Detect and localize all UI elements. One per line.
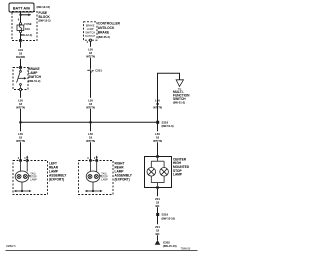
terminal at switch box bottom (19, 88, 21, 90)
ground bus arrows (right lamp) (85, 190, 103, 192)
svg-text:G302: G302 (163, 240, 170, 244)
node: middle bus junction (89, 121, 92, 124)
pin 4 (left lamp) (18, 157, 20, 160)
wire L50 18 WT/TN: S318 to center high mounted stop lamp (153, 122, 162, 156)
wire: L50 bus (horizontal) (21, 121, 158, 123)
wire: bus arrow to other fuses (21, 14, 32, 17)
svg-text:(8W-51-6): (8W-51-6) (162, 124, 174, 128)
svg-text:CONTROLLER: CONTROLLER (98, 22, 121, 26)
pin 4 (right lamp) (87, 157, 89, 160)
battery feed box BATT A06 (9, 3, 34, 12)
svg-text:OUTPUT: OUTPUT (85, 35, 96, 38)
svg-text:WT/TN: WT/TN (16, 139, 25, 143)
svg-text:(8W-12-4): (8W-12-4) (20, 33, 32, 37)
svg-text:BLOCK: BLOCK (39, 15, 51, 19)
ground G302 (155, 240, 177, 248)
footer rule (6, 249, 198, 251)
svg-text:WT/TN: WT/TN (153, 105, 162, 109)
svg-text:WT/TN: WT/TN (153, 139, 162, 143)
terminals at left lamp box top (19, 159, 28, 161)
CHMSL bulb left (147, 168, 156, 177)
controller antilock brake (dashed box) (84, 22, 98, 40)
svg-text:WT/TN: WT/TN (86, 139, 95, 143)
wire L50 18 WT/TN: middle bus to right rear lamp (86, 122, 95, 160)
wire: BATT A06 to fuse block (20, 12, 22, 15)
ground bus arrows (left lamp) (14, 190, 32, 192)
terminal at CHMSL bottom (156, 186, 158, 188)
CHMSL internal wiring (parallel bulbs) (151, 158, 164, 187)
footer page id J988W-5 (6, 245, 16, 248)
wire Z01 18 BK: S319 to ground (155, 216, 160, 240)
svg-text:ANTILOCK: ANTILOCK (98, 26, 115, 30)
svg-text:(8W-12-2): (8W-12-2) (39, 19, 51, 23)
brake lamp switch (dashed box) (13, 67, 42, 90)
tail feed stub with up arrow (right lamp) (94, 155, 98, 160)
controller name label (98, 22, 121, 39)
wire Z01 18 BK: CHMSL to S319 (155, 189, 160, 213)
terminals at right lamp box top (89, 159, 97, 161)
svg-text:SWITCH: SWITCH (173, 97, 186, 101)
off-page connector triangle to multi-function switch (173, 80, 190, 105)
node: left lamp ground junction (21, 190, 23, 192)
svg-text:10A: 10A (25, 27, 30, 31)
pin 2 (controller) (87, 41, 89, 44)
svg-text:BK: BK (155, 232, 159, 236)
fuse 10A (17, 22, 32, 37)
wire L50 18 WT/TN: C201 to bus (86, 70, 95, 122)
svg-text:(8W-15-10): (8W-15-10) (163, 244, 177, 248)
svg-text:J988W-5: J988W-5 (6, 245, 16, 248)
pin 8 (fuse cavity) (18, 18, 20, 21)
wire: left bulb to ground bus (21, 182, 23, 191)
svg-text:(EXPORT): (EXPORT) (115, 177, 130, 181)
svg-text:S318: S318 (162, 121, 169, 125)
terminal at controller box bottom (89, 39, 91, 41)
footer sheet id TJ8W-50 (181, 248, 191, 251)
wire: right bulb to ground bus (92, 182, 94, 191)
label TAIL/STOP LAMP (right) (99, 172, 108, 181)
wires into left tail/stop bulb (21, 162, 28, 172)
node: fused B+ bus junction (19, 14, 21, 16)
svg-text:DG/RD: DG/RD (16, 55, 25, 59)
svg-text:(EXPORT): (EXPORT) (49, 177, 64, 181)
svg-text:FUSE: FUSE (24, 22, 31, 26)
svg-text:(8W-51-3): (8W-51-3) (173, 101, 185, 105)
svg-text:WT/TN: WT/TN (86, 105, 95, 109)
svg-text:LAMP: LAMP (101, 178, 108, 181)
svg-text:LAMP: LAMP (30, 178, 37, 181)
svg-text:WT/TN: WT/TN (86, 54, 95, 58)
fuse block (dashed) (12, 11, 51, 41)
wire A10 18 DG/RD: fuse block to brake lamp switch (16, 42, 25, 68)
svg-text:(8W-51-2): (8W-51-2) (28, 79, 40, 83)
reference (8W-10-15) (37, 5, 51, 9)
svg-text:S319: S319 (162, 213, 169, 217)
wire: fuse to fuse block edge (20, 33, 22, 41)
left rear lamp assembly (dashed box) (13, 161, 67, 195)
svg-text:SWITCH: SWITCH (28, 75, 41, 79)
wire L50 18 WT/TN: left bus to left rear lamp (16, 122, 25, 160)
splice S318 (156, 121, 173, 129)
svg-text:BK: BK (155, 204, 159, 208)
splice S319 (156, 213, 175, 221)
wire: riser to multi-function switch (153, 73, 179, 122)
tail feed stub with up arrow (left lamp) (24, 155, 28, 160)
wire: bus to fuse (20, 15, 22, 23)
svg-text:TJ8W-50: TJ8W-50 (181, 248, 191, 251)
terminal at fuse block edge (19, 39, 21, 41)
label TAIL/STOP LAMP (left) (28, 172, 37, 181)
center high mounted stop lamp (box) (145, 157, 190, 188)
switch contacts and blade (17, 69, 22, 89)
node: right lamp ground junction (92, 190, 94, 192)
svg-text:LAMP: LAMP (173, 173, 183, 177)
svg-text:(8W-10-15): (8W-10-15) (37, 5, 51, 9)
wire L50 18 WT/TN: controller to C201 (86, 41, 95, 68)
left tail/stop lamp bulb (15, 171, 29, 182)
switch actuation arrow (18, 77, 27, 79)
svg-text:BATT A06: BATT A06 (13, 6, 30, 10)
svg-text:C201: C201 (95, 69, 102, 73)
connector C201 (87, 69, 102, 73)
right tail/stop lamp bulb (86, 171, 100, 182)
wire L50 18 WT/TN: switch to bus (16, 91, 25, 123)
terminal at switch box top (19, 66, 21, 68)
svg-text:BRAKE: BRAKE (98, 31, 109, 35)
terminal at CHMSL top (156, 155, 158, 157)
right rear lamp assembly (dashed box) (79, 161, 133, 195)
svg-text:WT/TN: WT/TN (16, 105, 25, 109)
node: left bus junction (19, 121, 22, 124)
svg-text:(8W-15-10): (8W-15-10) (162, 216, 176, 220)
svg-text:(8W-35-2): (8W-35-2) (98, 35, 110, 39)
CHMSL bulb right (160, 168, 169, 177)
wires into right tail/stop bulb (91, 162, 97, 172)
